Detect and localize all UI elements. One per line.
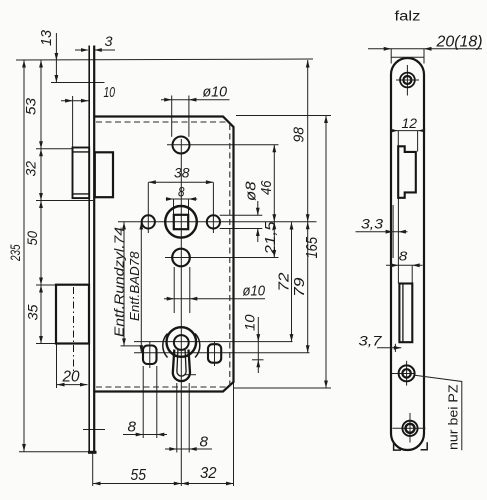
center line lock (vertical): [180, 139, 182, 486]
deadbolt front (protruding): [56, 285, 89, 344]
case hidden edge dashes: [96, 122, 230, 387]
extension line case bottom right: [234, 387, 331, 389]
keyhole lobe outer: [173, 350, 190, 382]
svg-text:8: 8: [399, 250, 408, 264]
arrowheads: [22, 48, 328, 485]
dimension 98 / 79 line: [307, 60, 309, 353]
dimension 46 / 21,5 line: [273, 145, 275, 258]
tick 10 end: [252, 359, 264, 361]
svg-text:ø10: ø10: [243, 283, 266, 300]
deadbolt cutout inner lip line: [402, 284, 404, 343]
svg-text:12: 12: [402, 115, 418, 131]
extension line case right edge down: [233, 382, 235, 486]
right hole o8: [207, 215, 220, 228]
chain dimension line 53/32/50/35: [40, 60, 42, 344]
extension line faceplate to 55: [92, 453, 94, 486]
svg-text:13: 13: [38, 29, 55, 46]
dimension 20 line (deadbolt protrusion): [57, 384, 88, 386]
dimension 13 line: [55, 33, 57, 83]
extension line bolt cutout right: [411, 266, 413, 284]
bottom corner bracket left: [394, 442, 401, 450]
tick Rundzyl 74 end: [121, 345, 143, 347]
extension lines 38 through side holes: [147, 183, 149, 234]
dimension 8 line (square follower): [166, 198, 197, 200]
screw center line (side view, bottom): [83, 429, 105, 431]
dimension 165 line: [325, 116, 327, 389]
svg-text:165: 165: [304, 237, 321, 259]
plate outline stadium shape: [391, 58, 424, 450]
svg-text:3: 3: [105, 33, 113, 49]
dimension 3,3 line: [356, 231, 408, 233]
leader line nur bei PZ: [415, 375, 462, 450]
deadbolt center dash line: [73, 287, 75, 372]
extension lines plate width: [390, 49, 392, 64]
dimension 10 line (cylinder offset right): [257, 317, 259, 373]
svg-text:8: 8: [200, 434, 209, 451]
svg-text:20: 20: [62, 369, 80, 386]
top hole o10: [173, 137, 190, 154]
svg-text:35: 35: [25, 304, 41, 320]
latch bottom extension line: [36, 200, 93, 202]
screw center line (side view, top): [51, 82, 105, 84]
round cylinder phantom arc left: [163, 334, 168, 358]
dimension line Entf.BAD78: [140, 222, 142, 353]
svg-text:Entf.Rundzyl.74: Entf.Rundzyl.74: [112, 227, 127, 337]
tick 3,7: [394, 344, 396, 352]
keyhole cross tick: [185, 374, 197, 376]
bottom screw hole: [402, 421, 417, 436]
svg-text:Entf.BAD78: Entf.BAD78: [127, 251, 142, 321]
bottom corner bracket right: [421, 442, 428, 450]
svg-text:98: 98: [291, 126, 308, 142]
dimension 3,7 line: [377, 347, 401, 349]
lock case outline (front view): [95, 117, 234, 392]
extension lines 3,3: [392, 205, 394, 258]
dimension 72 line: [291, 222, 293, 342]
lower hole o10: [172, 249, 190, 267]
dimension 235 line: [23, 60, 25, 452]
svg-text:32: 32: [200, 465, 217, 482]
svg-text:8: 8: [178, 185, 185, 200]
extension line case top right: [236, 115, 331, 117]
latch body behind faceplate: [95, 152, 113, 197]
extension lines square: [173, 199, 175, 215]
extension lines cylinder 8: [176, 383, 178, 453]
left hole o8: [142, 215, 155, 228]
extension lines top hole: [171, 96, 173, 137]
svg-text:79: 79: [291, 277, 308, 297]
dimension 8 line (slot offset, lower left): [123, 434, 167, 436]
dimension 8 line (cylinder offset, bottom): [165, 448, 212, 450]
extension line deadbolt front: [56, 344, 58, 388]
top extension line (faceplate top): [16, 59, 313, 60]
plate top bar line: [391, 56, 424, 58]
dimension 10 line (latch protrusion): [61, 100, 89, 102]
deadbolt bottom extension line: [36, 343, 57, 345]
slot center ticks: [149, 342, 151, 368]
svg-text:21,5: 21,5: [262, 221, 279, 256]
latch top extension line: [36, 148, 73, 150]
extension lines cutout 12: [397, 131, 399, 146]
dimension line Entf.Rundzyl.74: [123, 222, 125, 346]
arrowheads right view: [384, 47, 432, 350]
o8 tangent extension lines: [220, 214, 263, 216]
dimension 12 line: [397, 130, 421, 132]
dimension 3 line right part: [95, 49, 115, 51]
BAD78 center line: [134, 352, 310, 354]
dimension 20(18) line: [368, 48, 482, 50]
svg-text:53: 53: [23, 98, 39, 115]
bottom extension line (faceplate bottom): [19, 451, 90, 453]
extension line latch front: [72, 96, 74, 148]
svg-text:falz: falz: [395, 9, 421, 24]
dimension 55/32 line: [93, 483, 234, 485]
follower circle: [165, 206, 197, 238]
round cylinder center line: [134, 341, 293, 343]
latch cutout with lip: [398, 146, 416, 198]
top screw cross lines: [406, 65, 408, 96]
svg-text:3,3: 3,3: [361, 216, 383, 232]
faceplate bottom cap: [88, 451, 97, 454]
svg-text:32: 32: [23, 161, 39, 177]
svg-text:20(18): 20(18): [436, 34, 483, 51]
svg-text:72: 72: [276, 272, 293, 292]
deadbolt cutout: [399, 284, 412, 343]
extension line lower hole center: [165, 257, 279, 259]
extension lines slot 8: [142, 366, 144, 438]
svg-text:55: 55: [131, 467, 147, 484]
svg-text:46: 46: [258, 180, 275, 195]
latch head front (protruding): [73, 148, 90, 199]
svg-text:10: 10: [104, 84, 116, 101]
svg-text:10: 10: [242, 314, 258, 331]
svg-text:38: 38: [174, 165, 190, 181]
follower square 8mm: [174, 215, 188, 229]
dimension 3 line left part: [75, 49, 88, 51]
dimension o10 line (lower hole): [164, 298, 265, 300]
round cylinder phantom arc right: [195, 334, 200, 358]
lower screw cross lines: [406, 361, 408, 386]
dimension 38 line: [148, 181, 213, 183]
extension line top hole center: [167, 144, 279, 146]
lower screw hole (PZ): [399, 365, 415, 381]
svg-text:235: 235: [7, 244, 23, 261]
svg-text:8: 8: [128, 419, 137, 436]
profile cylinder keyhole inner circle: [174, 335, 189, 350]
bottom screw cross lines: [409, 413, 411, 443]
keyhole lobe inner: [177, 350, 186, 376]
svg-text:ø8: ø8: [243, 181, 260, 201]
dimension o10 line (top hole): [161, 99, 230, 101]
svg-text:3,7: 3,7: [359, 333, 383, 349]
faceplate edge view: [56, 46, 113, 453]
left slot rounded rect: [143, 346, 157, 365]
dimension 8 line (bolt cutout): [386, 264, 423, 266]
top screw hole: [400, 73, 415, 88]
deadbolt top extension line: [36, 284, 57, 286]
svg-text:nur bei PZ: nur bei PZ: [446, 384, 461, 450]
right slot rounded rect: [208, 344, 221, 363]
svg-text:ø10: ø10: [203, 84, 228, 101]
profile cylinder hole outer circle: [167, 327, 197, 357]
dimension o8 arrow line: [257, 201, 259, 215]
extension lines lower hole: [173, 267, 175, 313]
svg-text:50: 50: [24, 231, 40, 246]
follower center line horizontal: [118, 221, 317, 223]
